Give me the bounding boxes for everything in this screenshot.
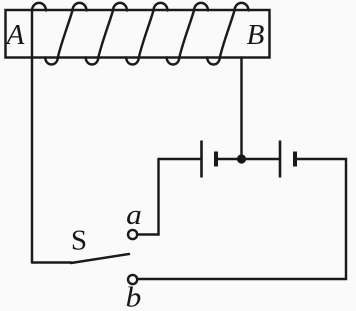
terminal a circle (128, 230, 137, 239)
wire: from terminal a right then up to battery row (137, 159, 159, 235)
junction node dot (237, 154, 246, 163)
battery cell 1 long plate (200, 141, 203, 178)
svg-text:B: B (247, 19, 265, 51)
terminal b circle (128, 275, 137, 284)
coil winding L1 (32, 3, 249, 65)
svg-text:a: a (126, 200, 142, 230)
svg-text:S: S (71, 225, 87, 257)
wire: bottom horizontal to switch pivot (32, 261, 71, 263)
svg-text:A: A (5, 19, 25, 51)
battery cell 2 short plate (293, 152, 297, 167)
wire: junction up to coil B lead (240, 58, 242, 160)
wire: left lead from coil A down (31, 11, 33, 263)
wire: cell 2 right, down, and along bottom to terminal b (138, 159, 347, 279)
svg-text:b: b (126, 283, 142, 311)
solenoid core rectangle AB (6, 10, 270, 58)
battery cell 1 short plate (214, 152, 218, 167)
battery cell 2 long plate (279, 141, 282, 178)
wire: cell 1 to junction (216, 158, 242, 160)
wire: junction to cell 2 (242, 158, 281, 160)
switch S blade (open) (71, 254, 129, 263)
wire: horizontal into left cell (159, 158, 202, 160)
